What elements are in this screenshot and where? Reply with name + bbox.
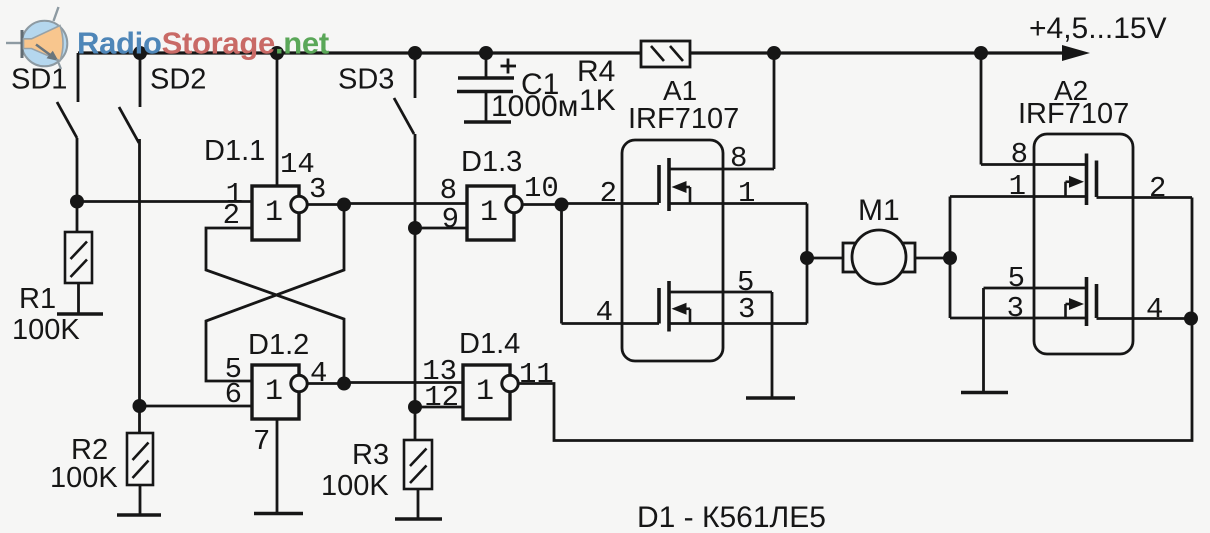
svg-text:1: 1 — [476, 375, 494, 409]
svg-text:D1.1: D1.1 — [204, 135, 265, 167]
svg-text:IRF7107: IRF7107 — [1018, 98, 1129, 130]
svg-text:4: 4 — [310, 357, 327, 390]
svg-text:5: 5 — [1008, 262, 1025, 295]
svg-text:1K: 1K — [579, 84, 616, 117]
svg-text:D1 - К561ЛЕ5: D1 - К561ЛЕ5 — [637, 501, 826, 533]
svg-text:R3: R3 — [352, 439, 389, 471]
svg-text:8: 8 — [1011, 138, 1028, 171]
svg-text:8: 8 — [730, 142, 747, 175]
svg-text:1: 1 — [265, 196, 283, 230]
svg-text:4: 4 — [1146, 293, 1163, 326]
svg-text:1: 1 — [1009, 170, 1026, 203]
svg-text:+4,5...15V: +4,5...15V — [1029, 12, 1167, 45]
svg-text:100K: 100K — [12, 314, 80, 346]
svg-text:100K: 100K — [50, 462, 118, 494]
svg-text:3: 3 — [738, 293, 755, 326]
svg-text:12: 12 — [424, 381, 459, 414]
svg-text:6: 6 — [225, 378, 242, 411]
svg-text:4: 4 — [596, 296, 613, 329]
svg-text:11: 11 — [519, 358, 554, 391]
svg-text:M1: M1 — [858, 194, 900, 227]
svg-text:D1.3: D1.3 — [461, 146, 522, 178]
svg-text:1: 1 — [265, 375, 283, 409]
svg-text:100K: 100K — [321, 470, 389, 502]
svg-text:2: 2 — [600, 177, 617, 210]
svg-text:14: 14 — [280, 148, 315, 181]
svg-text:3: 3 — [1007, 292, 1024, 325]
svg-text:A1: A1 — [663, 75, 697, 106]
svg-text:10: 10 — [524, 172, 559, 205]
svg-text:7: 7 — [253, 425, 270, 458]
svg-text:1: 1 — [738, 177, 755, 210]
svg-text:2: 2 — [1149, 172, 1166, 205]
svg-text:IRF7107: IRF7107 — [628, 103, 739, 135]
svg-text:SD2: SD2 — [150, 64, 206, 96]
svg-text:2: 2 — [223, 199, 240, 232]
svg-text:SD3: SD3 — [338, 64, 394, 96]
svg-text:SD1: SD1 — [11, 64, 67, 96]
svg-text:D1.2: D1.2 — [248, 329, 309, 361]
svg-text:RadioStorage.net: RadioStorage.net — [77, 26, 329, 61]
svg-text:9: 9 — [442, 203, 459, 236]
svg-text:R1: R1 — [19, 283, 56, 315]
svg-text:1: 1 — [480, 196, 498, 230]
svg-text:1000м: 1000м — [491, 90, 578, 123]
svg-text:D1.4: D1.4 — [459, 328, 520, 360]
